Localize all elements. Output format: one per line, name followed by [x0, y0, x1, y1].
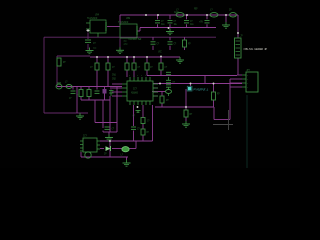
svg-text:CON-SIL HEADER 4P: CON-SIL HEADER 4P — [244, 48, 268, 51]
svg-text:TL072ACD: TL072ACD — [118, 21, 129, 24]
svg-text:P?/OUTPUT_1: P?/OUTPUT_1 — [194, 88, 209, 92]
svg-text:TL072ACD: TL072ACD — [87, 17, 98, 20]
svg-text:AD1866: AD1866 — [131, 92, 139, 95]
svg-text:TL072ACD PWR: TL072ACD PWR — [128, 38, 142, 41]
